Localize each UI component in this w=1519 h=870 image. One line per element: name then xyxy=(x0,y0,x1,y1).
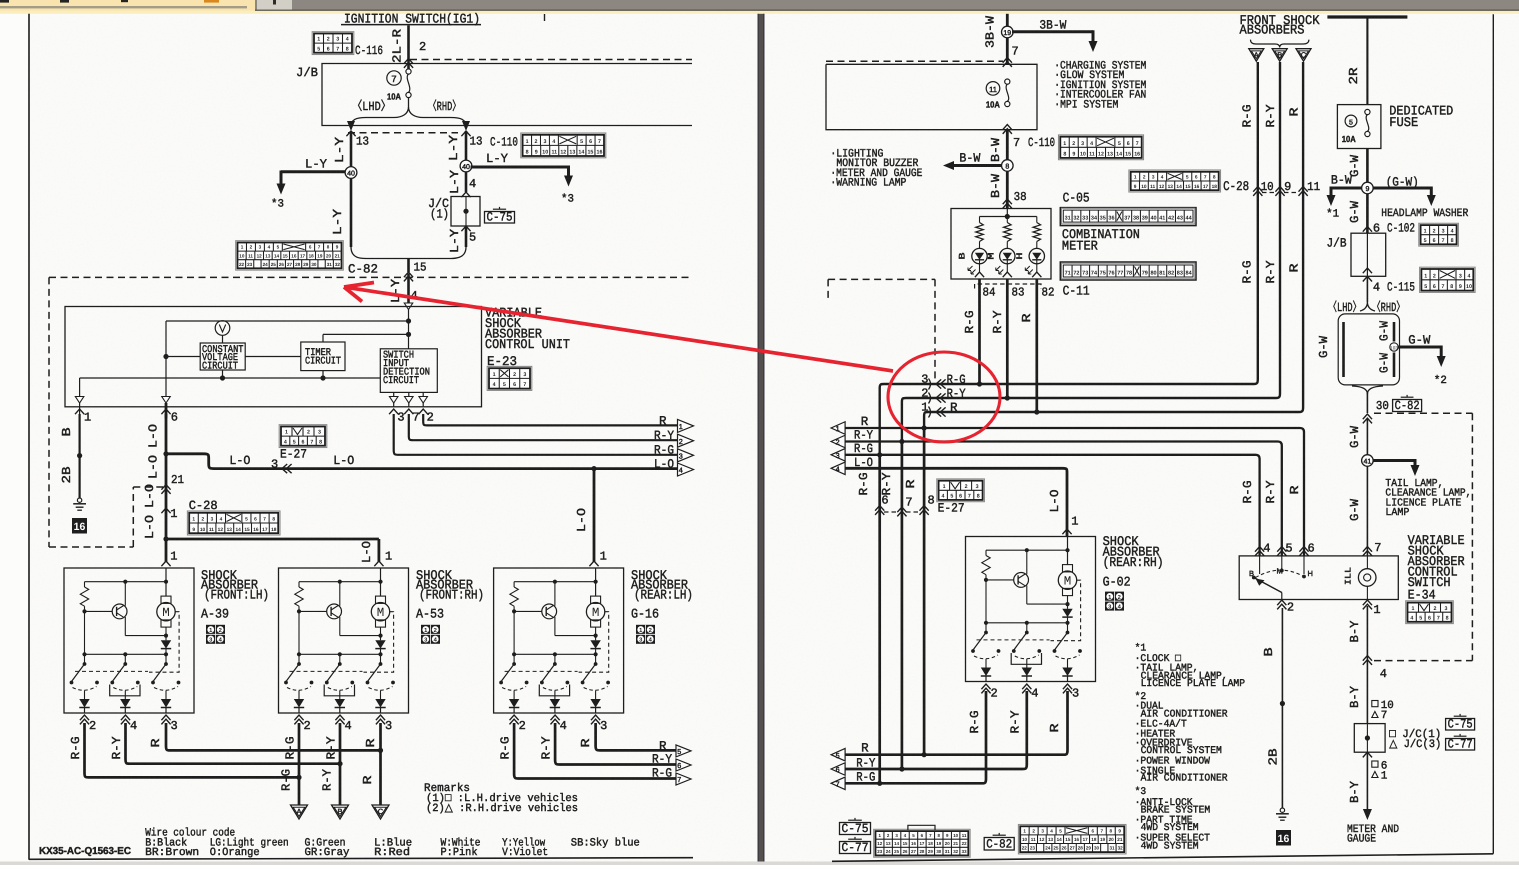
fuse box (J/B) right page xyxy=(826,64,1037,129)
small tick top xyxy=(544,14,546,21)
TIMER CIRCUIT xyxy=(301,342,345,371)
dedicated fuse box xyxy=(1337,105,1381,149)
wire below fuse box xyxy=(1003,125,1012,130)
left continuation arrows rows R R-Y R-G L-O xyxy=(845,428,1304,556)
switch output 1 B-Y chain xyxy=(1363,600,1372,605)
circle 9 xyxy=(1362,182,1374,194)
shock absorber A-39 xyxy=(64,568,194,713)
connector C-110 xyxy=(521,133,606,158)
connector C-82 grid xyxy=(236,241,344,270)
wire to J/B xyxy=(1366,194,1369,233)
connector grid C-75/C-77 xyxy=(874,829,970,857)
indicator lamp 1 xyxy=(972,248,987,263)
E-34 switch box xyxy=(1239,556,1398,600)
red annotation ellipse xyxy=(888,352,1000,442)
internal wiring of control unit xyxy=(408,310,410,349)
connector C-110 right xyxy=(1059,135,1144,160)
indicator lamp 2 xyxy=(1000,248,1015,263)
fuse 7 10A in J/B xyxy=(387,71,401,85)
tail lamp branch xyxy=(1373,459,1415,462)
window tab xyxy=(257,0,292,10)
shock absorber G-16 xyxy=(494,568,624,713)
bottom wire runs left page xyxy=(166,723,381,750)
rows 3/2/1 with R-G R-Y R xyxy=(880,62,1258,456)
J/C junction box right xyxy=(1354,724,1385,753)
wires down from meter xyxy=(978,279,981,384)
connector C-82 grid right page xyxy=(1018,825,1126,854)
C-82 label bottom xyxy=(984,838,1014,851)
connector C-116 xyxy=(312,32,354,55)
G-W wire xyxy=(1366,149,1369,183)
wire 2L-R vertical xyxy=(407,26,410,71)
3B-W branch arrow xyxy=(1012,30,1093,33)
label C-75 xyxy=(485,212,515,224)
control unit box xyxy=(65,307,482,407)
B-W branch arrow left xyxy=(952,164,1002,167)
bottom rows to arrows 5 6 7 xyxy=(845,691,1068,755)
branch bus to A-53 xyxy=(163,536,168,541)
pin markers 10 / 7 xyxy=(1372,701,1378,707)
bottom gray strip xyxy=(0,862,1519,866)
beige strip below top bar xyxy=(0,11,1519,14)
pin mark into J/B xyxy=(404,59,413,64)
dashed continuation line top xyxy=(410,59,692,61)
wire L-Y left branch xyxy=(350,131,353,247)
wire into control unit pin 4 xyxy=(404,272,413,277)
SIDC outputs xyxy=(393,392,395,396)
2R feed xyxy=(1327,15,1407,18)
right page border xyxy=(1492,14,1494,854)
circle 40 right xyxy=(460,160,472,172)
shock absorber G-02 xyxy=(966,537,1096,682)
wire below J/C xyxy=(461,226,470,231)
switch output 2 -> ground xyxy=(1277,600,1286,605)
G-W to circle 41 xyxy=(1366,418,1368,455)
toolbar beige top-left xyxy=(0,0,255,11)
bracket over A B C xyxy=(1251,40,1309,48)
scan noise overlay xyxy=(29,14,757,862)
wire L-Y right branch xyxy=(465,131,468,192)
ground wire B/2B xyxy=(78,414,80,498)
connector C-102 xyxy=(1419,223,1459,246)
left page border xyxy=(28,14,30,860)
page divider bar xyxy=(758,14,765,862)
wire to E-34 pin 7 xyxy=(1366,466,1368,556)
CONSTANT VOLTAGE CIRCUIT xyxy=(200,343,245,370)
dashed continuation left of fuse box xyxy=(826,60,1003,62)
circle 19 xyxy=(1002,26,1014,38)
connector E-27 right xyxy=(937,479,985,502)
below J/C xyxy=(1363,752,1372,757)
SWITCH INPUT DETECTION CIRCUIT xyxy=(380,349,437,393)
connector E-23 xyxy=(487,366,532,390)
L-O feed wire xyxy=(165,414,168,562)
circle 8 junction xyxy=(1002,160,1014,172)
L-O distribution elbow xyxy=(166,454,678,469)
dashed bracket under meter xyxy=(975,284,1041,289)
verticals down to bottom rows xyxy=(878,455,881,784)
G-W branch *2 xyxy=(1398,346,1441,349)
branch to G-16 xyxy=(591,466,596,471)
thick L-Y wire to *3 right xyxy=(471,166,569,169)
toolbar separator line xyxy=(0,6,247,8)
internal links xyxy=(245,356,301,358)
indicator lamp 3 xyxy=(1029,248,1044,263)
top gray bar xyxy=(255,0,1519,11)
switch contacts xyxy=(1259,557,1261,575)
red annotation arrow xyxy=(344,287,893,371)
junction block J/B box xyxy=(322,64,692,126)
control unit pins 1 6 3 7 2 xyxy=(79,403,81,417)
wire down to 30 C-82 xyxy=(1360,302,1375,311)
fuse 11 10A xyxy=(986,82,1000,96)
connector E-34 xyxy=(1406,601,1454,624)
pins under boxes xyxy=(80,715,89,720)
lamp resistor 2 xyxy=(1006,217,1008,223)
rows to continuation arrows right xyxy=(423,414,677,425)
main feed 3B-W xyxy=(1006,14,1009,64)
dashed boundary switch region xyxy=(1374,412,1472,414)
circle 40 left xyxy=(345,167,357,179)
combination meter box xyxy=(951,209,1051,280)
shock absorber A-53 xyxy=(279,568,409,713)
B-W branch *1 xyxy=(1331,187,1362,190)
connector labels C-75 C-77 bottom xyxy=(840,823,871,835)
G-16 outputs to arrows 5 6 7 xyxy=(596,723,676,750)
lamp resistor 3 xyxy=(1036,217,1038,223)
G-02 pins xyxy=(981,684,990,689)
dashed line between branches xyxy=(348,132,458,134)
dashed boundary of control unit xyxy=(49,276,692,278)
voltage symbol xyxy=(215,321,230,336)
J/B box right xyxy=(1363,227,1372,232)
thick L-Y wire to *3 left xyxy=(281,170,345,173)
connector C-28 right page xyxy=(1129,170,1221,192)
dashed corner above circled pins xyxy=(828,278,935,280)
(G-W) branch headlamp washer xyxy=(1373,187,1431,190)
triangles A B C xyxy=(1249,49,1264,62)
continuation arrows 1-4 xyxy=(678,419,694,432)
lamp resistor 1 xyxy=(979,217,981,223)
joining elbow to pin 15 xyxy=(351,247,466,259)
toolbar icon fragments xyxy=(0,0,9,3)
C-11 grid and label xyxy=(1060,262,1196,280)
E-27 connector xyxy=(279,425,327,448)
